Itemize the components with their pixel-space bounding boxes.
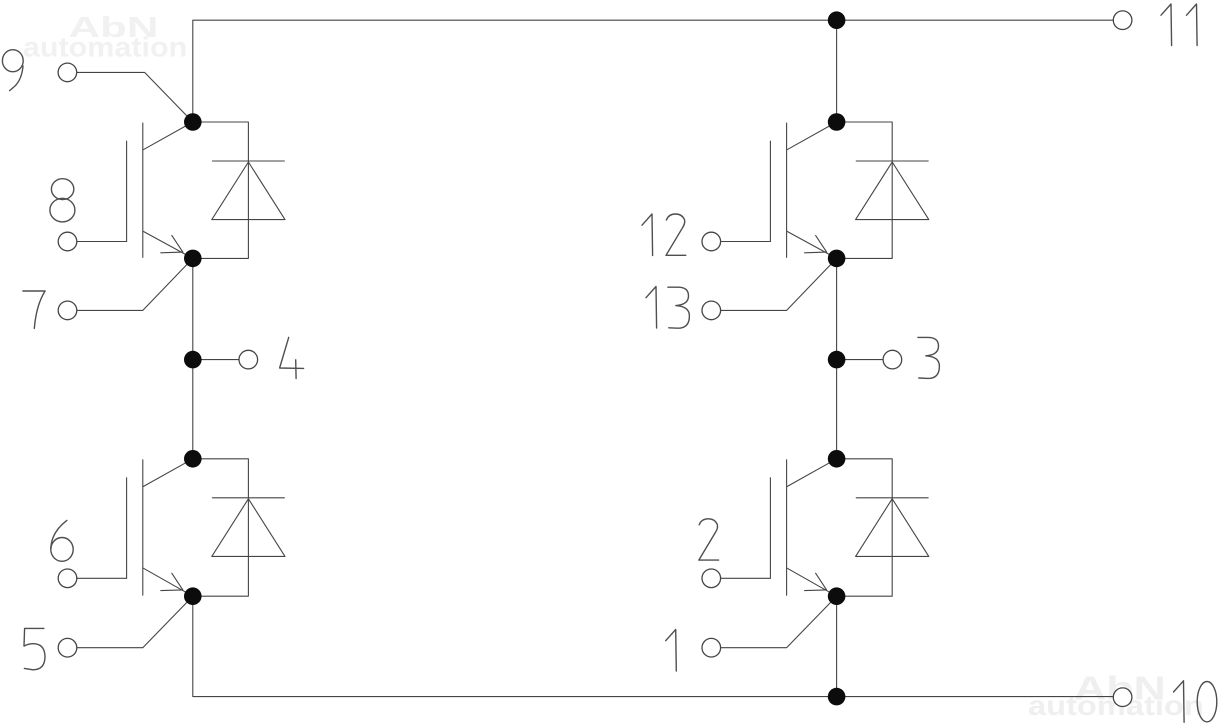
- wire right column drop from top rail: [836, 20, 838, 122]
- junction Q2 collector: [184, 450, 202, 468]
- wire terminal 5 kelvin lead: [77, 596, 193, 648]
- wire terminal 7 kelvin lead: [77, 258, 193, 310]
- label 13: [646, 287, 689, 329]
- junction Q4 emitter: [828, 587, 846, 605]
- diode D1 (anti-parallel): [193, 122, 285, 258]
- diode D2 (anti-parallel): [193, 459, 285, 596]
- label 4: [280, 337, 304, 378]
- terminal 5: [58, 638, 77, 657]
- terminal 6: [58, 569, 77, 588]
- junction Q1 collector: [184, 113, 202, 131]
- transistor Q3 (IGBT): [721, 122, 837, 258]
- label 3: [918, 337, 940, 378]
- wire node 3 stub: [837, 359, 884, 361]
- junction Q3 collector: [828, 113, 846, 131]
- junction bottom rail / right column: [828, 688, 846, 706]
- wire node 4 stub: [193, 359, 239, 361]
- terminal 12: [702, 232, 721, 251]
- label 5: [24, 628, 45, 669]
- wire terminal 1 kelvin lead: [721, 596, 837, 648]
- terminal 3: [883, 350, 902, 369]
- terminal 8: [58, 232, 77, 251]
- svg-text:automation: automation: [23, 31, 187, 62]
- wire terminal 13 kelvin lead: [721, 258, 837, 310]
- junction node 3: [828, 351, 846, 369]
- terminal 1: [702, 638, 721, 657]
- terminal 4: [239, 350, 258, 369]
- terminal 2: [702, 569, 721, 588]
- wire right mid link (node 3): [836, 258, 838, 458]
- label 9: [2, 50, 23, 91]
- label 10: [1174, 681, 1217, 723]
- terminal 7: [58, 301, 77, 320]
- label 8: [50, 179, 75, 222]
- wire bottom rail (DC-): [193, 596, 1114, 696]
- wire top rail (DC+): [193, 20, 1114, 122]
- wire right column drop to bottom rail: [836, 596, 838, 696]
- transistor Q4 (IGBT): [721, 459, 837, 596]
- transistor Q2 (IGBT): [77, 459, 193, 596]
- label 6: [51, 520, 73, 561]
- terminal 9: [58, 63, 77, 82]
- watermark AbN automation (bottom-right): [1028, 670, 1204, 721]
- watermark AbN automation (top-left): [23, 12, 187, 63]
- label 1: [666, 630, 677, 672]
- wire left mid link (node 4): [192, 258, 194, 458]
- label 2: [699, 519, 719, 560]
- diode D3 (anti-parallel): [837, 122, 929, 258]
- junction Q3 emitter: [828, 250, 846, 268]
- terminal 13: [702, 301, 721, 320]
- label 11: [1161, 4, 1197, 46]
- label 7: [23, 291, 45, 328]
- wire terminal 9 lead: [77, 72, 193, 122]
- junction Q4 collector: [828, 450, 846, 468]
- junction node 4: [184, 351, 202, 369]
- diode D4 (anti-parallel): [837, 459, 929, 596]
- terminal 10: [1113, 688, 1132, 707]
- transistor Q1 (IGBT): [77, 122, 193, 258]
- junction top rail / right column: [828, 11, 846, 29]
- junction Q1 emitter: [184, 250, 202, 268]
- label 12: [642, 214, 686, 256]
- terminal 11: [1113, 11, 1132, 30]
- junction Q2 emitter: [184, 587, 202, 605]
